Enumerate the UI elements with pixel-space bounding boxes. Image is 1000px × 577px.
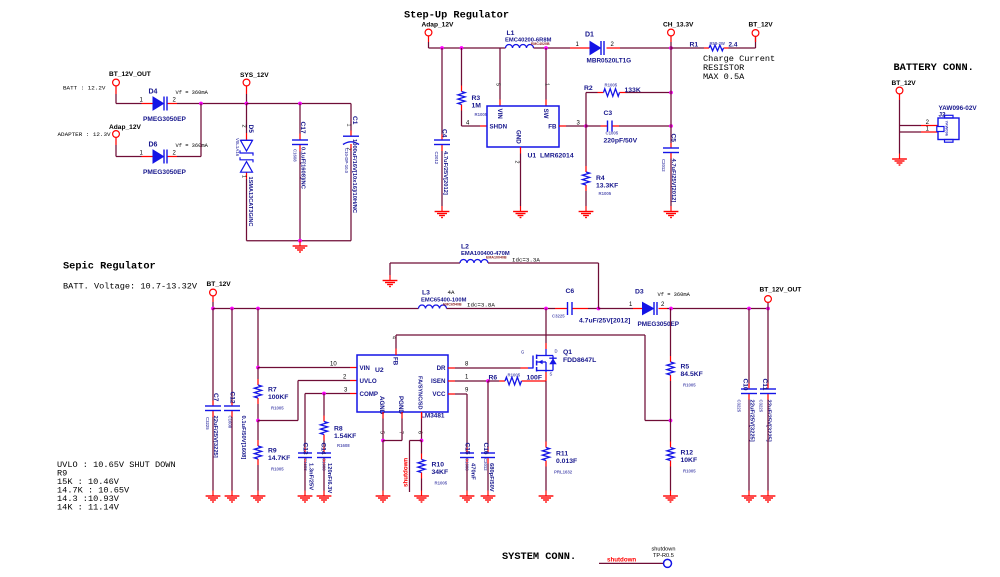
resistor R11 [542,442,577,475]
testpoint TP-R0.5 shutdown [652,547,676,568]
svg-text:UVLO : 10.65V SHUT DOWN: UVLO : 10.65V SHUT DOWN [57,460,176,470]
svg-text:SW: SW [542,109,549,119]
svg-text:4.7uF/25V[2012]: 4.7uF/25V[2012] [579,318,630,325]
wire [545,48,547,100]
svg-text:LMR62014: LMR62014 [540,153,574,160]
annotation BATT voltage [63,282,198,292]
wire [115,94,117,104]
wire [257,309,259,368]
wire [729,47,756,49]
wire [401,419,403,441]
wire [257,421,259,441]
ground [225,491,240,503]
ground [892,154,907,166]
svg-text:GND: GND [515,130,522,144]
wire [441,48,443,135]
svg-text:R10: R10 [432,462,445,469]
junction [381,439,385,443]
wire [323,464,325,491]
wire [899,126,901,133]
transistor Q1 FDD8647L [521,343,597,381]
svg-text:1SMA13CAT3G/NC: 1SMA13CAT3G/NC [247,177,253,227]
svg-text:VIN: VIN [496,109,503,120]
junction [669,307,673,311]
wire [670,421,672,442]
wire [299,104,301,134]
ground [481,491,496,503]
diode D1 [570,32,631,65]
wire [644,335,646,421]
svg-text:SYSTEM CONN.: SYSTEM CONN. [502,551,576,563]
svg-text:C7: C7 [212,393,219,402]
svg-text:R12: R12 [681,450,694,457]
resistor R3 [458,86,488,118]
svg-text:FDD8647L: FDD8647L [563,357,596,364]
junction [440,46,444,50]
svg-text:C3225: C3225 [759,400,764,413]
annotation UVLO table [57,460,176,513]
diode D4 [140,89,187,124]
capacitor C5 [661,134,679,203]
svg-text:BATT. Voltage: 10.7-13.32V: BATT. Voltage: 10.7-13.32V [63,282,198,292]
wire [246,179,248,241]
svg-text:R1005: R1005 [683,469,696,474]
svg-text:BT_12V: BT_12V [892,80,917,87]
wire [212,302,214,309]
node BATT annotation [63,85,106,92]
wire [899,132,901,154]
label Vf D6 [176,143,209,149]
svg-text:ISEN: ISEN [431,378,446,385]
svg-text:34KF: 34KF [432,469,449,476]
svg-text:COMP: COMP [360,391,379,398]
wire [409,441,411,493]
pin 8 stub U2 [448,362,469,369]
svg-text:BATTERY CONN.: BATTERY CONN. [894,62,974,74]
junction [669,124,673,128]
wire [323,394,325,416]
capacitor C17 [292,122,308,190]
wire [395,335,397,349]
wire [231,309,233,401]
pin 5 stub U1 [495,83,501,106]
svg-text:C2012: C2012 [483,458,488,471]
wire [748,309,750,384]
junction [245,102,249,106]
junction [460,46,464,50]
wire [421,441,423,454]
svg-text:D4: D4 [149,89,158,96]
svg-text:R1005: R1005 [475,112,488,117]
svg-text:L3: L3 [422,290,430,297]
ground [383,275,398,287]
svg-text:R1005: R1005 [435,481,448,486]
svg-text:TP-R0.5: TP-R0.5 [653,553,674,559]
wire [246,104,248,134]
connector J2 YAW096-02V [937,105,978,142]
wire [588,308,599,310]
svg-text:C6: C6 [566,288,575,295]
wire [599,562,664,564]
pin 1 stub U1 [544,83,550,106]
svg-text:SYS_12V: SYS_12V [240,72,269,79]
ground [761,491,776,503]
capacitor C16 [481,443,495,492]
wire [297,381,299,421]
junction [544,46,548,50]
wire [382,419,384,441]
wire [767,303,769,309]
wire [748,400,750,491]
svg-text:D3: D3 [635,289,644,296]
svg-text:13.3KF: 13.3KF [596,183,618,190]
svg-text:14.7KF: 14.7KF [268,455,290,462]
svg-text:BT_12V: BT_12V [749,22,774,29]
svg-text:Sepic Regulator: Sepic Regulator [63,261,156,273]
op-amp U2 LM3481 [357,355,448,420]
svg-text:C3225: C3225 [552,314,565,319]
svg-text:S: S [550,372,553,377]
junction [584,124,588,128]
wire [441,151,443,206]
wire [670,381,672,421]
diode D6 [140,142,187,177]
svg-text:LM3481: LM3481 [421,413,445,420]
ground [435,206,450,218]
wire [585,126,587,166]
pin 3 stub U1 [559,121,581,127]
wire [767,400,769,491]
wire [298,380,350,382]
ground [742,491,757,503]
svg-text:PGND: PGND [397,396,404,414]
svg-text:FB: FB [548,124,557,131]
ground [460,491,475,503]
wire [900,131,922,133]
svg-text:C16: C16 [482,443,489,455]
svg-text:Q1: Q1 [563,349,572,356]
resistor R12 [667,442,697,474]
svg-text:PRL1632: PRL1632 [554,470,573,475]
ground [206,491,221,503]
wire [671,47,704,49]
svg-text:C1608: C1608 [293,149,298,162]
wire [247,240,352,242]
wire [488,262,599,264]
capacitor C10 [737,379,758,442]
title Step-Up Regulator [404,10,509,22]
svg-text:R1608: R1608 [337,443,350,448]
wire [116,156,142,158]
wire [177,103,247,105]
svg-text:R5: R5 [681,364,690,371]
svg-text:4A: 4A [448,289,455,296]
wire [466,394,468,448]
port Adap_12V (left) [109,124,141,145]
wire [304,394,306,448]
capacitor C1 (electrolytic) [343,116,359,214]
wire [899,100,901,126]
wire [619,125,671,127]
svg-text:SHDN: SHDN [490,124,508,131]
svg-text:C2012: C2012 [434,152,439,165]
pin 10 stub U2 [330,362,357,368]
port BT_12V_OUT [109,71,151,94]
svg-text:0.1uF/50V[1608]: 0.1uF/50V[1608] [240,416,246,460]
svg-text:AGND: AGND [378,396,385,415]
ground [376,491,391,503]
svg-text:1000uF/16V[10x16]/10H/NC: 1000uF/16V[10x16]/10H/NC [351,139,357,214]
svg-text:100KF: 100KF [268,394,288,401]
svg-text:D5: D5 [247,125,254,134]
pin 5 stub U2 [379,412,385,434]
wire [585,93,587,127]
junction [597,307,601,311]
svg-text:PMEG3050EP: PMEG3050EP [143,169,186,176]
title Sepic Regulator [63,261,156,273]
svg-text:Vf = 360mA: Vf = 360mA [176,90,209,96]
diode D5 (TVS) [235,125,254,227]
wire [545,381,547,442]
svg-text:C10-DP-10.0: C10-DP-10.0 [344,148,349,174]
svg-text:2: 2 [240,125,246,128]
svg-text:C5: C5 [670,134,677,143]
junction [256,307,260,311]
svg-text:2: 2 [514,161,520,164]
wire [487,464,489,491]
wire [383,440,402,442]
capacitor C4 [434,129,450,195]
svg-text:Vf = 360mA: Vf = 360mA [658,292,691,298]
svg-text:R1005: R1005 [508,373,521,378]
resistor R4 [582,166,618,196]
title SYSTEM CONN. [502,551,576,563]
capacitor C7 [205,393,221,458]
ground [539,491,554,503]
svg-text:R1005: R1005 [683,383,696,388]
svg-text:14K : 11.14V: 14K : 11.14V [57,503,120,513]
port BT_12V (top) [749,22,774,43]
svg-text:C3225: C3225 [737,400,742,413]
wire [599,308,634,310]
wire [670,309,672,357]
wire [247,103,352,105]
pin 4 stub U2 [391,336,397,355]
wire [670,42,672,48]
svg-text:R1005: R1005 [271,467,284,472]
net shutdown (stub) [403,458,410,487]
svg-text:UVLO: UVLO [360,378,377,385]
svg-text:10KF: 10KF [681,457,698,464]
inductor L2 [460,244,540,264]
svg-text:220pF/50V: 220pF/50V [604,138,638,145]
wire [323,441,325,448]
svg-text:D: D [555,349,558,354]
wire [520,154,522,207]
svg-text:C3: C3 [604,110,613,117]
wire [429,47,506,49]
svg-text:V0L1A16: V0L1A16 [235,138,240,157]
junction [199,102,203,106]
svg-text:C14: C14 [320,443,327,455]
wire [200,104,202,157]
ground [317,491,332,503]
svg-text:U2: U2 [375,367,384,374]
junction [486,379,490,383]
svg-text:CH_13.3V: CH_13.3V [663,22,694,29]
ground [251,491,266,503]
svg-text:C15: C15 [464,443,471,455]
svg-text:C1005: C1005 [606,131,619,136]
label Vf D3 [658,292,691,298]
wire [177,156,201,158]
wire [304,464,306,491]
svg-text:VIN: VIN [360,365,371,372]
svg-text:5: 5 [495,83,501,86]
wire [645,420,671,422]
svg-text:R1: R1 [690,42,699,49]
wire [461,111,463,127]
wire [305,393,350,395]
svg-text:R11: R11 [556,451,568,458]
wire [421,419,423,441]
wire [488,380,499,382]
wire [767,309,769,384]
ground [298,491,313,503]
svg-text:R2: R2 [584,85,593,92]
svg-text:R1005: R1005 [599,191,612,196]
port SYS_12V [240,72,269,94]
svg-text:YAW096: YAW096 [945,121,950,137]
svg-text:100F: 100F [527,375,543,382]
title BATTERY CONN. [894,62,974,74]
wire [545,309,547,344]
svg-text:C3225: C3225 [205,417,210,430]
svg-text:FB: FB [392,357,399,366]
svg-text:C12: C12 [229,392,236,404]
junction [766,307,770,311]
svg-text:4.7uF/25V[2012]: 4.7uF/25V[2012] [442,151,448,195]
svg-text:C11: C11 [761,379,768,391]
resistor R9 [254,440,290,472]
svg-text:C4: C4 [441,129,448,138]
wire [116,103,142,105]
wire [586,125,601,127]
svg-text:R58-2W: R58-2W [710,41,725,46]
node ADAPTER annotation [58,131,111,138]
wire [213,308,419,310]
svg-text:shutdown: shutdown [403,458,410,487]
pin 7 stub U2 [398,412,404,434]
junction [230,307,234,311]
label Vf D4 [176,90,209,96]
svg-text:MBR0520LT1G: MBR0520LT1G [587,58,632,65]
pin 9 stub U2 [448,388,469,395]
port CH_13.3V [663,22,694,43]
svg-text:DR: DR [437,365,446,372]
ground [414,491,429,503]
wire [670,159,672,207]
wire [455,367,521,369]
svg-text:Vf = 360mA: Vf = 360mA [176,143,209,149]
resistor R6 [489,373,547,385]
svg-text:Step-Up Regulator: Step-Up Regulator [404,10,509,22]
capacitor C3 [601,110,638,145]
wire [257,404,259,421]
wire [350,151,352,241]
junction [420,439,424,443]
wire [461,48,463,86]
junction [211,307,215,311]
svg-text:1.54KF: 1.54KF [334,433,356,440]
wire [499,48,501,100]
svg-text:EMC4020B: EMC4020B [531,42,550,46]
pin 1 stub J2 [921,127,938,133]
svg-text:shutdown: shutdown [652,547,676,553]
wire [534,47,571,49]
wire [620,47,671,49]
wire [585,191,587,206]
wire [382,441,384,491]
wire [212,309,214,401]
ground [663,491,678,503]
wire [115,145,117,157]
svg-text:U1: U1 [528,153,537,160]
ground [293,241,308,253]
wire [299,152,301,241]
svg-text:J2: J2 [939,112,947,119]
op-amp U1 LMR62014 [487,106,574,160]
wire [212,417,214,491]
svg-text:Adap_12V: Adap_12V [109,124,141,131]
svg-text:BATT : 12.2V: BATT : 12.2V [63,85,106,92]
wire [410,440,422,442]
wire [428,42,430,48]
capacitor C14 [317,443,332,494]
resistor R10 [418,454,448,486]
svg-text:PMEG3050EP: PMEG3050EP [638,321,680,328]
svg-text:1: 1 [240,175,246,178]
resistor R8 [320,416,356,449]
junction [256,366,260,370]
svg-text:FA/SYNC/SD: FA/SYNC/SD [417,376,423,410]
svg-text:R4: R4 [596,175,605,182]
wire [231,417,233,491]
svg-text:L1: L1 [507,30,515,37]
wire [258,420,298,422]
svg-text:C10: C10 [742,379,749,391]
svg-text:G: G [521,350,524,355]
svg-text:C13: C13 [302,443,309,455]
svg-text:BT_12V_OUT: BT_12V_OUT [760,287,802,294]
wire [598,263,600,309]
svg-text:R1005: R1005 [605,83,618,88]
port Adap_12V (step-up) [422,22,454,43]
wire [258,367,350,369]
svg-text:R1005: R1005 [271,406,284,411]
junction [669,419,673,423]
wire [455,393,467,395]
junction [322,392,326,396]
junction [298,239,302,243]
pin 3 stub U2 [344,388,357,394]
wire [421,479,423,491]
svg-text:EMC6540B: EMC6540B [443,303,462,307]
svg-text:C2012: C2012 [661,159,666,172]
pin 2 stub U2 [343,375,357,381]
junction [544,307,548,311]
resistor R2 [584,83,641,97]
